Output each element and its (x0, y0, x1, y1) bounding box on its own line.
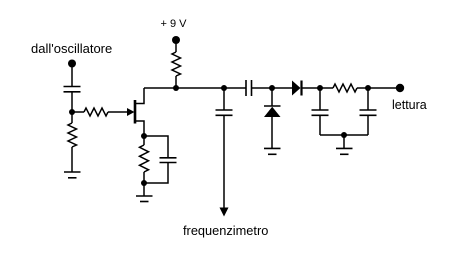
diode D1 shunt clamp (264, 88, 281, 148)
node output terminal (396, 84, 404, 92)
ground source (136, 196, 153, 202)
ground clamp (264, 148, 281, 154)
wire C3 to D1 anode (252, 87, 293, 89)
diode D2 series detector (292, 81, 302, 96)
resistor R3 drain load (172, 40, 181, 88)
node H source junction (141, 133, 147, 139)
node E junction (317, 85, 323, 91)
wire to filter ground (343, 135, 345, 148)
node B junction drain bus (173, 85, 179, 91)
node F junction (365, 85, 371, 91)
capacitor C3 series coupling (246, 80, 252, 96)
capacitor C4 filter (312, 88, 329, 135)
transistor Q1 JFET (127, 88, 144, 136)
wire R4 to output (357, 87, 399, 89)
svg-text:frequenzimetro: frequenzimetro (183, 223, 268, 238)
wire C1 to node A (71, 92, 73, 112)
wire to frequenzimetro arrow (223, 115, 225, 208)
wire filter bottom rail (320, 134, 368, 136)
resistor R1 gate series (72, 108, 127, 116)
node A junction (69, 109, 75, 115)
node D junction (269, 85, 275, 91)
capacitor C1 input coupling (64, 87, 81, 92)
svg-text:dall'oscillatore: dall'oscillatore (31, 41, 112, 56)
ground input (64, 172, 81, 178)
capacitor C6 source bypass (144, 136, 177, 183)
wire drain bus (144, 87, 246, 89)
ground filter (336, 148, 353, 154)
node C junction (221, 85, 227, 91)
wire to source ground (143, 183, 145, 196)
capacitor C2 to frequenzimetro (216, 88, 233, 115)
wire input dot to C1 (71, 64, 73, 87)
node G junction (341, 132, 347, 138)
resistor R2 gate bias to ground (68, 112, 77, 172)
node I source ground junction (141, 180, 147, 186)
resistor R4 filter series (333, 84, 357, 92)
capacitor C5 filter (360, 88, 377, 135)
arrow frequenzimetro output (220, 208, 229, 217)
svg-text:+ 9 V: + 9 V (161, 18, 188, 30)
node +9V supply terminal (172, 36, 180, 44)
wire D2 to R4 (302, 87, 334, 89)
svg-text:lettura: lettura (392, 98, 427, 112)
node input terminal (68, 60, 76, 68)
resistor R5 source (140, 136, 149, 183)
